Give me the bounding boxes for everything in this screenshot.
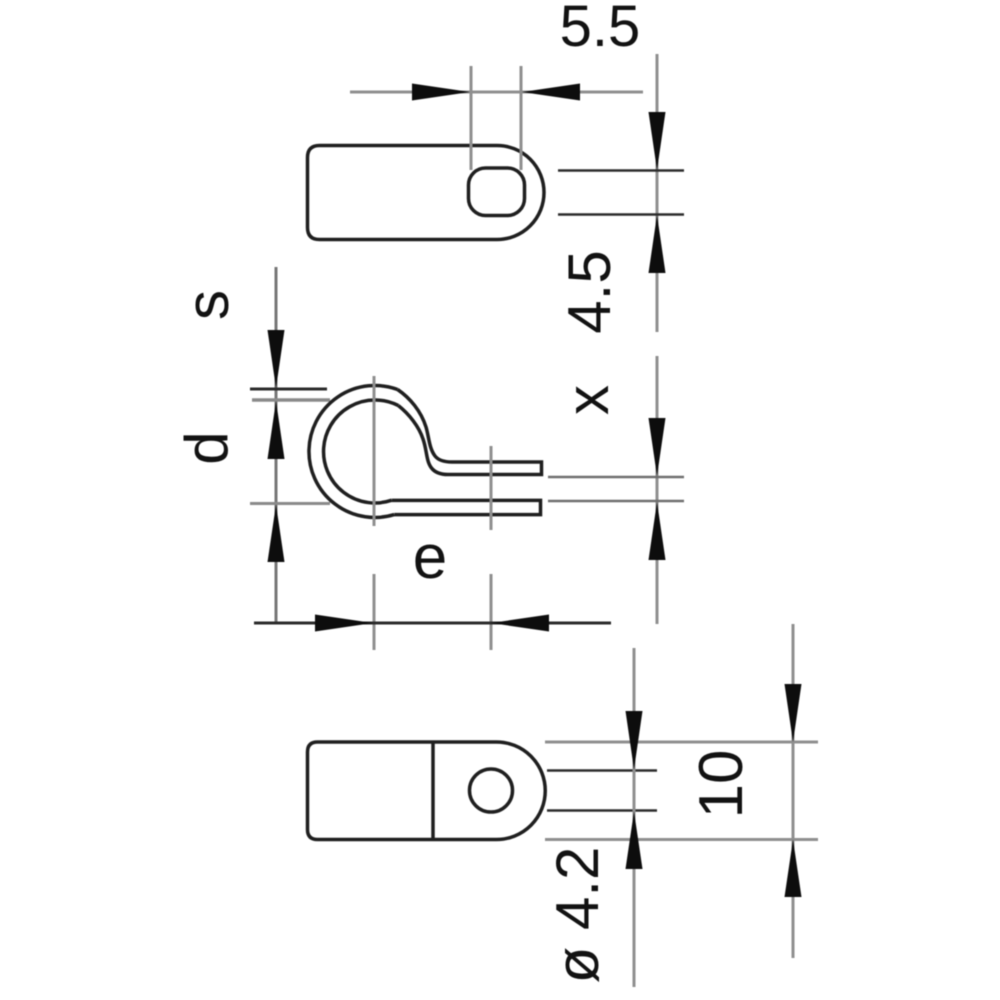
top view slot hole (469, 168, 525, 216)
centerline ring extension to e dim (373, 574, 376, 650)
arrow e right (491, 615, 549, 632)
tick line hole top (o 4.2) (547, 769, 657, 772)
svg-text:x: x (554, 385, 621, 415)
arrow s bottom (268, 401, 285, 459)
top view body outline (308, 146, 545, 240)
arrow o 4.2 top (626, 711, 643, 770)
svg-text:5.5: 5.5 (560, 0, 641, 59)
arrow o 4.2 bottom (626, 812, 643, 870)
side view lower tail (392, 500, 541, 514)
tick line hole bottom (558, 213, 684, 216)
bottom view fold divider line (431, 742, 435, 840)
arrow x top (649, 418, 666, 476)
side view upper strip (398, 390, 542, 475)
tick line s top (250, 388, 327, 391)
chain dimension line lower segment (656, 356, 659, 624)
bottom view body outline (308, 742, 546, 840)
arrow 5.5 right (522, 84, 580, 101)
extension line body bottom to 10 dim (545, 838, 818, 841)
arrow s top (268, 330, 285, 388)
svg-text:10: 10 (687, 750, 756, 819)
dimension line 10 (792, 624, 795, 958)
side view inner ring arc (324, 400, 399, 503)
extension line left of 5.5 dim (470, 66, 473, 170)
tick line d bottom (250, 502, 330, 505)
side view outer ring arc (309, 385, 398, 517)
svg-text:d: d (173, 431, 240, 464)
centerline through tails (490, 446, 493, 530)
tick line hole bottom (o 4.2) (547, 809, 657, 812)
arrow d bottom (268, 505, 285, 563)
arrow 5.5 left (412, 84, 470, 101)
svg-text:e: e (413, 523, 447, 592)
extension line right of 5.5 dim (520, 66, 523, 170)
dimension line 5.5 (350, 91, 643, 94)
arrow e left (315, 615, 373, 632)
chain dimension line upper segment (656, 54, 659, 332)
centerline tails extension to e dim (490, 574, 493, 650)
dimension line o 4.2 (633, 648, 636, 987)
arrow 10 top (785, 684, 802, 742)
arrow 4.5 bottom (649, 215, 666, 273)
bottom view hole circle (470, 769, 513, 812)
tick line upper tail bottom (548, 476, 684, 479)
extension line body top to 10 dim (545, 741, 818, 744)
tick line s bottom (252, 398, 330, 402)
svg-text:4.5: 4.5 (556, 250, 623, 333)
tick line hole top (558, 169, 684, 172)
arrow x bottom (649, 502, 666, 560)
svg-text:ø 4.2: ø 4.2 (544, 847, 611, 984)
dimension line e (254, 622, 611, 625)
tick line lower tail top (548, 500, 684, 503)
left dimension line (275, 267, 278, 623)
arrow 10 bottom (785, 840, 802, 898)
svg-text:s: s (174, 290, 241, 320)
arrow 4.5 top (649, 112, 666, 170)
centerline through ring (373, 376, 376, 526)
